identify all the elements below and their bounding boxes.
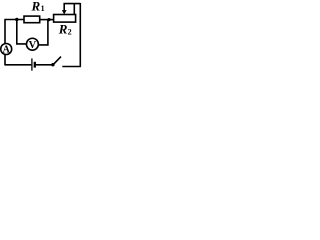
rheostat slider arrowhead (62, 10, 67, 14)
svg-text:V: V (29, 40, 37, 51)
wire: right vertical (79, 3, 81, 67)
wire: bottom-right horizontal to switch contact (62, 66, 81, 68)
wire: bottom-left corner up to ammeter (4, 55, 6, 66)
resistor R1 (24, 16, 40, 23)
rheostat R2 box (54, 15, 76, 23)
battery short thick plate (-) (34, 62, 36, 68)
wire: top-left horizontal to R1 (4, 19, 24, 21)
rheostat slider arrow stem (63, 3, 65, 11)
svg-text:R: R (31, 0, 41, 13)
wire: battery to switch (36, 64, 52, 66)
wire: voltmeter right branch (down then left) (39, 20, 48, 45)
wire: left vertical (top corner down to ammeter) (4, 20, 6, 44)
svg-text:2: 2 (68, 27, 72, 36)
wire: top-right connector into R2 box top (73, 4, 75, 15)
voltmeter V circle (26, 38, 38, 50)
svg-text:1: 1 (41, 4, 45, 13)
switch pivot dot (51, 63, 54, 66)
wire: R1 to R2 (40, 19, 54, 21)
svg-text:R: R (58, 21, 68, 36)
svg-text:A: A (3, 45, 11, 56)
wire: slider top wire (64, 3, 81, 5)
battery long plate (+) (31, 58, 33, 70)
ammeter A circle (1, 44, 12, 55)
wire: battery left to bottom-left corner (5, 64, 31, 66)
switch S lever (53, 57, 61, 65)
node: junction dot left (voltmeter tap) (15, 18, 18, 21)
wire: voltmeter left branch (down then right) (17, 20, 26, 44)
background (0, 0, 83, 73)
node: junction dot right (voltmeter tap) (47, 18, 50, 21)
